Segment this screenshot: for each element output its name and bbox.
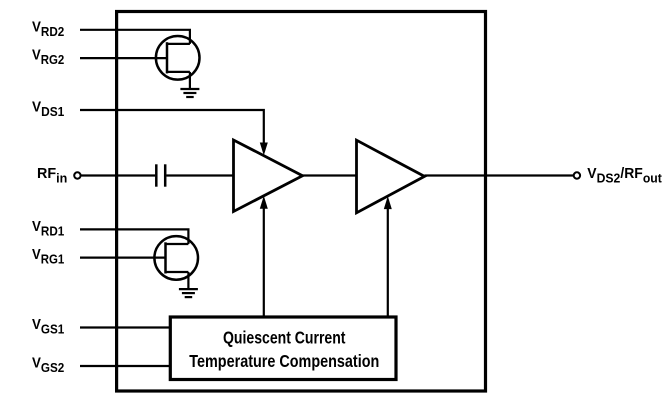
svg-text:Temperature Compensation: Temperature Compensation xyxy=(189,351,379,371)
svg-text:VRG2: VRG2 xyxy=(32,47,64,67)
svg-text:VRD2: VRD2 xyxy=(32,18,64,39)
svg-text:VDS1: VDS1 xyxy=(32,99,65,120)
svg-text:VDS2/RFout: VDS2/RFout xyxy=(587,165,662,186)
svg-text:VRD1: VRD1 xyxy=(32,218,65,239)
svg-text:VGS1: VGS1 xyxy=(32,316,65,337)
svg-text:VRG1: VRG1 xyxy=(32,246,65,267)
svg-text:Quiescent Current: Quiescent Current xyxy=(223,328,346,348)
svg-text:VGS2: VGS2 xyxy=(32,355,64,376)
svg-text:RFin: RFin xyxy=(37,165,67,186)
